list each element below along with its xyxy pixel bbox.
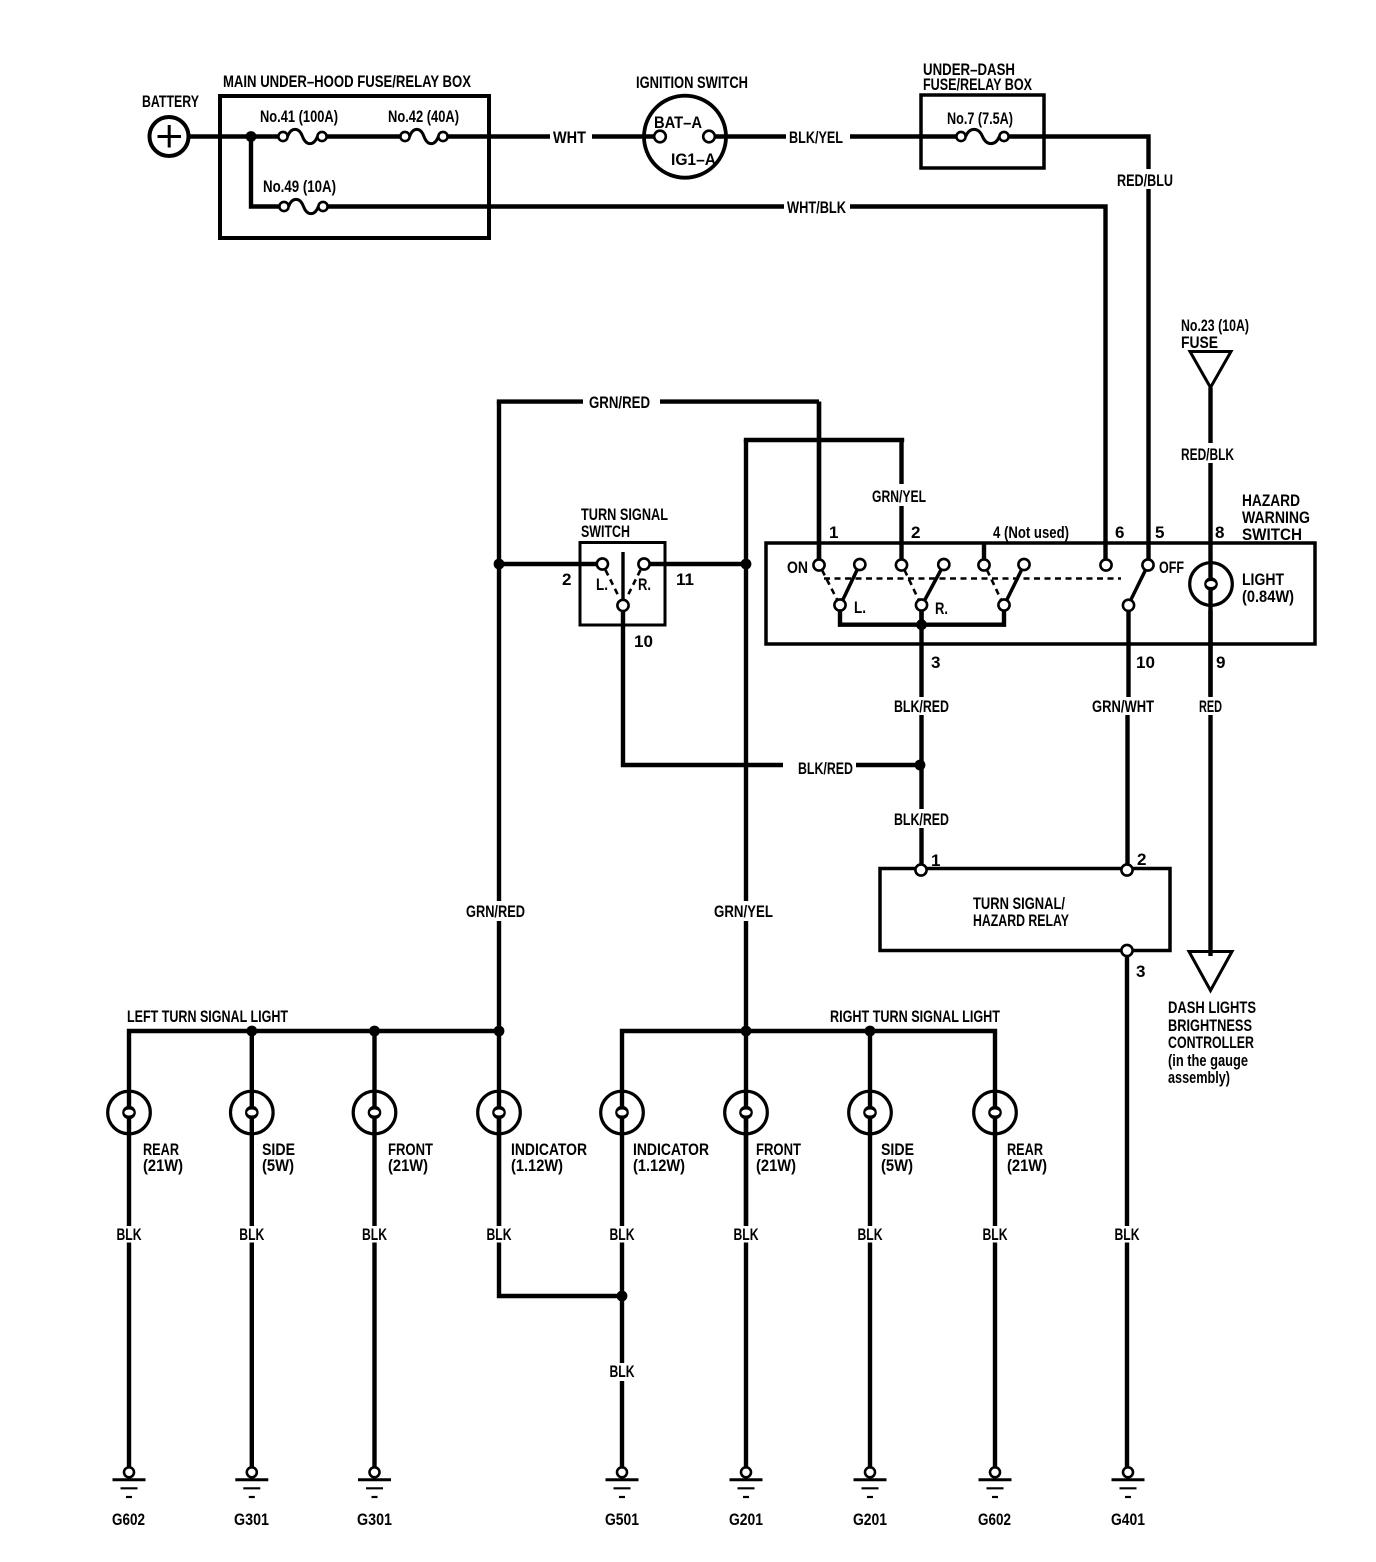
wire left rear BLK to G602 [117, 1119, 143, 1467]
svg-text:G401: G401 [1111, 1510, 1145, 1529]
svg-text:RIGHT TURN SIGNAL LIGHT: RIGHT TURN SIGNAL LIGHT [830, 1007, 1000, 1026]
svg-text:RED: RED [1199, 697, 1222, 716]
svg-text:BATTERY: BATTERY [142, 92, 199, 111]
svg-text:G301: G301 [357, 1510, 392, 1529]
svg-text:assembly): assembly) [1168, 1068, 1230, 1087]
svg-text:ON: ON [787, 558, 808, 577]
hazard switch blade 3 [1007, 568, 1023, 601]
svg-text:CONTROLLER: CONTROLLER [1168, 1033, 1254, 1052]
right side bulb 5W [849, 1091, 914, 1175]
svg-text:(5W): (5W) [881, 1156, 913, 1175]
svg-text:G602: G602 [978, 1510, 1011, 1529]
wire right side BLK to G201 [858, 1119, 884, 1467]
main under-hood fuse/relay box [220, 72, 489, 238]
svg-text:(5W): (5W) [262, 1156, 294, 1175]
junction GRN/RED at turn signal switch [494, 559, 505, 570]
svg-text:BLK: BLK [610, 1225, 636, 1244]
wire left side BLK to G301 [239, 1119, 265, 1467]
ground G301 left front [357, 1467, 392, 1529]
svg-text:R.: R. [935, 599, 948, 618]
svg-text:(21W): (21W) [388, 1156, 428, 1175]
ground G602 left rear [112, 1467, 146, 1529]
ground G501 indicators [605, 1467, 639, 1529]
wire turn signal switch pin 10 BLK/RED [621, 611, 922, 778]
svg-text:11: 11 [676, 570, 694, 589]
fuse No.41 (100A) [260, 107, 338, 144]
wire left indicator BLK [487, 1119, 513, 1244]
junction right bus side [865, 1026, 876, 1037]
hazard switch dashed linkage [822, 570, 1121, 600]
hazard switch blade R [925, 568, 943, 601]
junction left bus front [369, 1026, 380, 1037]
svg-text:6: 6 [1115, 523, 1124, 542]
svg-text:8: 8 [1215, 523, 1224, 542]
right front bulb 21W [725, 1091, 802, 1175]
svg-text:L.: L. [854, 598, 866, 617]
svg-text:3: 3 [931, 653, 940, 672]
svg-text:WHT: WHT [553, 128, 587, 147]
ground G301 left side [234, 1467, 269, 1529]
wire fuse No.41 to fuse No.42 [327, 134, 401, 138]
wire relay pin 3 to G401 [1115, 956, 1141, 1467]
under-dash fuse/relay box [921, 60, 1044, 168]
svg-text:(21W): (21W) [143, 1156, 183, 1175]
junction battery feed [246, 131, 257, 142]
svg-text:R.: R. [638, 575, 651, 594]
svg-text:3: 3 [1136, 962, 1145, 981]
wire RED/BLU [1009, 134, 1173, 559]
junction right bus front [741, 1026, 752, 1037]
wire hazard pin 1 stub [817, 402, 821, 560]
hazard indicator light bulb 0.84W [1190, 563, 1233, 606]
junction indicators BLK [617, 1291, 628, 1302]
wire WHT [448, 128, 654, 147]
svg-text:No.7 (7.5A): No.7 (7.5A) [947, 109, 1013, 128]
svg-text:BLK: BLK [983, 1225, 1009, 1244]
wire battery to fuse box [188, 134, 278, 138]
hazard pin contacts [813, 559, 1153, 611]
wire turn signal feed [499, 562, 746, 566]
svg-text:G501: G501 [605, 1510, 639, 1529]
svg-text:9: 9 [1216, 653, 1225, 672]
ground G401 relay [1111, 1467, 1145, 1529]
wire left front BLK to G301 [362, 1119, 388, 1467]
wire BLK/RED hazard pin 3 to relay pin 1 [894, 611, 949, 865]
wire GRN/RED [466, 393, 819, 1296]
svg-text:SWITCH: SWITCH [1242, 525, 1302, 544]
svg-text:OFF: OFF [1159, 558, 1184, 577]
svg-text:(21W): (21W) [1007, 1156, 1047, 1175]
hazard pin labels [787, 523, 1225, 672]
svg-text:No.41 (100A): No.41 (100A) [260, 107, 338, 126]
svg-text:RED/BLK: RED/BLK [1181, 445, 1235, 464]
svg-text:2: 2 [911, 523, 920, 542]
wire No.49 branch [249, 137, 280, 209]
svg-text:BLK/YEL: BLK/YEL [789, 128, 843, 147]
battery [142, 92, 199, 156]
svg-text:G602: G602 [112, 1510, 145, 1529]
svg-text:5: 5 [1155, 523, 1164, 542]
svg-text:BLK: BLK [858, 1225, 884, 1244]
ground G201 right front [729, 1467, 763, 1529]
left turn signal light bus [127, 1007, 499, 1106]
svg-text:SWITCH: SWITCH [581, 522, 630, 541]
svg-text:BLK/RED: BLK/RED [894, 697, 949, 716]
svg-text:G301: G301 [234, 1510, 269, 1529]
svg-text:1: 1 [829, 523, 838, 542]
svg-text:No.42 (40A): No.42 (40A) [388, 107, 459, 126]
svg-text:BLK: BLK [487, 1225, 513, 1244]
svg-text:BLK: BLK [362, 1225, 388, 1244]
svg-text:BLK: BLK [610, 1362, 636, 1381]
svg-text:GRN/YEL: GRN/YEL [714, 902, 773, 921]
wire RED hazard pin 9 to dash lights controller [1199, 611, 1222, 957]
wire right indicator BLK to G501 [610, 1119, 636, 1467]
svg-text:DASH LIGHTS: DASH LIGHTS [1168, 998, 1256, 1017]
svg-text:GRN/WHT: GRN/WHT [1092, 697, 1154, 716]
svg-text:(0.84W): (0.84W) [1242, 587, 1294, 606]
svg-text:GRN/RED: GRN/RED [466, 902, 525, 921]
svg-text:1: 1 [931, 851, 940, 870]
wire right rear BLK to G602 [983, 1119, 1009, 1467]
wire GRN/WHT hazard pin 10 to relay pin 2 [1092, 611, 1154, 865]
svg-text:10: 10 [634, 632, 653, 651]
svg-text:MAIN UNDER–HOOD FUSE/RELAY BOX: MAIN UNDER–HOOD FUSE/RELAY BOX [223, 72, 471, 91]
junction left bus side [246, 1026, 257, 1037]
hazard switch blade OFF [1131, 568, 1147, 601]
svg-text:2: 2 [1137, 850, 1146, 869]
turn signal/hazard relay [880, 850, 1170, 981]
hazard switch blade L [843, 568, 859, 601]
svg-text:FUSE/RELAY BOX: FUSE/RELAY BOX [923, 75, 1032, 94]
junction GRN/YEL at pin 11 [741, 559, 752, 570]
junction left bus indicator [494, 1026, 505, 1037]
right turn signal light bus [622, 1007, 1000, 1106]
svg-text:BLK/RED: BLK/RED [894, 810, 949, 829]
wire WHT/BLK [328, 198, 1108, 559]
left side bulb 5W [231, 1091, 296, 1175]
svg-text:2: 2 [562, 570, 571, 589]
wire BLK/YEL [715, 128, 957, 147]
svg-text:LEFT TURN SIGNAL LIGHT: LEFT TURN SIGNAL LIGHT [127, 1007, 288, 1026]
wire hazard lower contacts bus [840, 611, 1004, 625]
svg-text:No.49 (10A): No.49 (10A) [263, 177, 336, 196]
wire right front BLK to G201 [734, 1119, 760, 1244]
ignition switch [636, 73, 748, 178]
junction BLK/RED tee [915, 760, 926, 771]
svg-text:BLK/RED: BLK/RED [798, 759, 853, 778]
svg-text:RED/BLU: RED/BLU [1117, 171, 1173, 190]
turn signal switch [562, 505, 694, 651]
fuse No.7 (7.5A) [947, 109, 1013, 144]
junction hazard pin 3 bus [916, 619, 927, 630]
wire RED/BLK [1181, 388, 1235, 697]
wire hazard pin 4 stub [982, 544, 986, 559]
svg-text:(1.12W): (1.12W) [511, 1156, 563, 1175]
left front bulb 21W [353, 1091, 433, 1175]
svg-text:BAT–A: BAT–A [654, 113, 702, 132]
dash lights brightness controller [1168, 952, 1256, 1088]
right indicator bulb 1.12W [601, 1091, 709, 1175]
svg-text:BLK: BLK [1115, 1225, 1141, 1244]
svg-text:L.: L. [596, 575, 608, 594]
svg-text:GRN/YEL: GRN/YEL [872, 487, 926, 506]
svg-text:WHT/BLK: WHT/BLK [787, 198, 847, 217]
fuse No.49 (10A) [263, 177, 336, 214]
svg-text:G201: G201 [729, 1510, 763, 1529]
svg-text:4 (Not used): 4 (Not used) [993, 523, 1069, 542]
svg-text:BLK: BLK [239, 1225, 265, 1244]
svg-text:IGNITION SWITCH: IGNITION SWITCH [636, 73, 748, 92]
svg-text:IG1–A: IG1–A [671, 150, 716, 169]
svg-text:BLK: BLK [117, 1225, 143, 1244]
svg-text:G201: G201 [853, 1510, 887, 1529]
svg-text:GRN/RED: GRN/RED [589, 393, 650, 412]
left indicator bulb 1.12W [478, 1091, 587, 1175]
left rear bulb 21W [108, 1091, 183, 1175]
wire GRN/YEL [714, 440, 926, 1467]
svg-text:(1.12W): (1.12W) [633, 1156, 685, 1175]
right rear bulb 21W [974, 1091, 1047, 1175]
fuse No.23 (10A) connector triangle [1181, 316, 1249, 388]
ground G201 right side [853, 1467, 887, 1529]
svg-text:10: 10 [1136, 653, 1155, 672]
svg-text:HAZARD RELAY: HAZARD RELAY [973, 911, 1069, 930]
hazard warning switch [766, 491, 1315, 644]
svg-text:(21W): (21W) [756, 1156, 796, 1175]
ground G602 right rear [978, 1467, 1012, 1529]
fuse No.42 (40A) [388, 107, 459, 144]
svg-text:BLK: BLK [734, 1225, 760, 1244]
svg-text:FUSE: FUSE [1181, 333, 1218, 352]
